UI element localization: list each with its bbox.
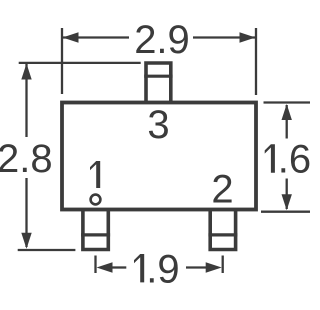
1.9 right tick bbox=[222, 256, 224, 274]
pin 2 lead bend line bbox=[208, 233, 237, 236]
extension line top for 1.6 dim bbox=[264, 101, 311, 103]
2.9 dimension line right segment bbox=[193, 36, 255, 38]
svg-text:3: 3 bbox=[147, 103, 169, 147]
extension line bottom for 1.6 dim bbox=[261, 211, 310, 213]
1.6 top arrowhead bbox=[282, 104, 292, 120]
1.9 left tick bbox=[94, 256, 96, 274]
svg-text:2.8: 2.8 bbox=[0, 137, 53, 181]
pin label 1 bbox=[90, 161, 100, 188]
2.9 dimension line left segment bbox=[63, 36, 129, 38]
pin 1 marker circle bbox=[91, 195, 101, 205]
1.6 bottom arrowhead bbox=[282, 194, 292, 210]
pin 3 lead bend line bbox=[144, 75, 172, 78]
pin 1 lead bend line bbox=[81, 233, 110, 236]
1.9 dimension text bbox=[134, 254, 144, 282]
2.8 bottom arrowhead bbox=[21, 233, 31, 249]
2.9 left arrowhead bbox=[63, 32, 79, 42]
extension line bottom for 2.8 dim bbox=[18, 249, 76, 251]
pin 1 lead (bottom left) bbox=[83, 210, 108, 250]
svg-text:.6: .6 bbox=[278, 138, 310, 182]
1.6 dimension line lower segment bbox=[286, 179, 288, 210]
extension line top for 2.8 dim bbox=[19, 62, 141, 64]
1.6 dimension text bbox=[265, 144, 275, 172]
pin 3 lead (top tab) bbox=[146, 63, 171, 103]
2.9 right arrowhead bbox=[240, 32, 256, 42]
2.8 dimension line upper segment bbox=[25, 64, 27, 137]
svg-text:.9: .9 bbox=[146, 247, 179, 291]
svg-text:2.9: 2.9 bbox=[134, 18, 190, 62]
1.6 dimension line upper segment bbox=[286, 105, 288, 139]
2.8 dimension line lower segment bbox=[25, 178, 27, 247]
extension line left for 2.9 dim bbox=[61, 28, 63, 94]
pin 2 lead (bottom right) bbox=[210, 210, 235, 250]
1.9 left arrowhead bbox=[97, 262, 113, 272]
package body outline bbox=[62, 103, 256, 210]
1.9 dimension line right segment bbox=[186, 266, 206, 268]
1.9 right arrowhead bbox=[206, 262, 222, 272]
extension line right for 2.9 dim bbox=[255, 28, 257, 95]
svg-text:2: 2 bbox=[211, 167, 233, 211]
2.8 top arrowhead bbox=[21, 64, 31, 80]
1.9 dimension line left segment bbox=[112, 266, 126, 268]
